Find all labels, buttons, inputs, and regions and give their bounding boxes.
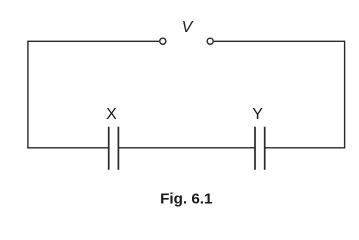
- svg-text:X: X: [106, 106, 117, 123]
- svg-text:Y: Y: [252, 106, 263, 123]
- svg-text:Fig. 6.1: Fig. 6.1: [160, 190, 213, 207]
- svg-text:V: V: [182, 19, 194, 36]
